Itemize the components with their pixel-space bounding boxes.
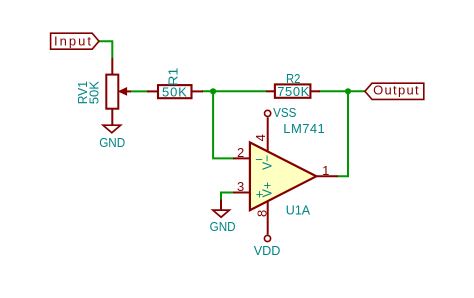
global label Output [365, 82, 424, 99]
svg-text:1: 1 [322, 163, 329, 178]
global label Input [51, 33, 99, 49]
junction node A [210, 88, 216, 94]
svg-text:V+: V+ [260, 182, 275, 198]
pin 8 [267, 201, 269, 235]
svg-text:R1: R1 [166, 68, 181, 87]
wire pin 3 to GND [221, 193, 234, 201]
wire R1 to R2 [202, 90, 267, 92]
wire R2 to output [319, 90, 366, 92]
svg-text:50K: 50K [162, 84, 187, 99]
ground GND1 [103, 125, 121, 133]
wire node A to pin 2 [213, 91, 234, 158]
svg-text:50K: 50K [87, 81, 102, 105]
svg-text:VDD: VDD [254, 243, 281, 258]
wire node B to pin 1 [337, 91, 348, 176]
pin 1 [316, 175, 338, 177]
svg-text:8: 8 [255, 210, 270, 217]
potentiometer RV1 [106, 58, 131, 125]
svg-text:4: 4 [253, 134, 268, 141]
svg-text:750K: 750K [277, 84, 309, 99]
svg-text:VSS: VSS [273, 105, 297, 120]
svg-text:GND: GND [210, 219, 236, 234]
power VDD [264, 235, 270, 241]
svg-text:LM741: LM741 [283, 121, 324, 136]
resistor R1 [147, 85, 203, 98]
svg-text:U1A: U1A [286, 202, 311, 217]
wire input to RV1 [99, 41, 113, 58]
svg-text:GND: GND [99, 135, 125, 150]
junction node B [345, 88, 351, 94]
ground GND2 [213, 200, 230, 218]
pin 3 [233, 192, 250, 194]
resistor R2 [266, 84, 320, 97]
wire wiper to R1 [130, 90, 149, 92]
svg-text:2: 2 [237, 145, 244, 160]
op-amp U1 body [250, 142, 316, 210]
svg-text:3: 3 [237, 179, 244, 194]
pin 2 [233, 157, 250, 159]
pin 4 [267, 117, 269, 152]
svg-text:Output: Output [373, 82, 419, 97]
power VSS [265, 110, 271, 116]
svg-text:V−: V− [260, 155, 275, 170]
